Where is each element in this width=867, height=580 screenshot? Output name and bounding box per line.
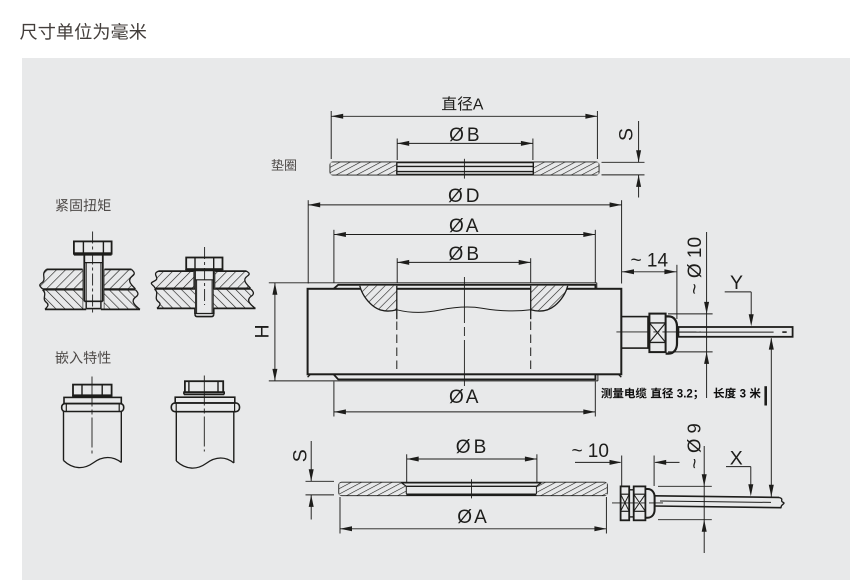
dim ~10 extension lines: [622, 456, 654, 487]
bolt2 upper plate (hatched): [151, 271, 250, 288]
svg-text:A: A: [473, 97, 484, 114]
dim ØB(top) extension lines: [397, 139, 533, 161]
dim label S top (rotated): [616, 128, 638, 141]
dim S(top) extension lines: [602, 162, 645, 175]
dim label 直径A: [442, 96, 484, 113]
bolt2 hex head: [186, 258, 222, 271]
cable (upper): [678, 327, 792, 337]
dim ØA(bottom washer) extension lines: [340, 497, 606, 534]
bolt1 hole clearance lines: [83, 269, 105, 309]
leader Y: [725, 272, 754, 326]
bottom washer outline: [339, 483, 607, 496]
bolt1 protruding tip: [86, 301, 101, 308]
body bottom corner chamfers: [308, 374, 622, 377]
cable length dimension vertical: [766, 338, 774, 497]
bolt1 upper plate (hatched): [40, 269, 136, 289]
dim ØB(bottom) line with arrows: [407, 457, 537, 462]
dim label ØB mid: [448, 244, 478, 265]
dim H bottom extension / bottom silhouette line: [269, 374, 598, 381]
left diaphragm pocket (hatched): [360, 286, 397, 319]
bottom gland washer section: [621, 486, 630, 520]
cyl1 cylinder with break bottom: [64, 412, 122, 468]
dim label ~10: [571, 441, 609, 462]
dim label ØA bottom washer: [457, 507, 487, 528]
dim ØA(mid) line with arrows: [334, 232, 595, 237]
dim ~Ø10 vertical line with arrows: [704, 232, 709, 398]
dim ~Ø9 vertical line with arrows: [702, 446, 707, 553]
bolt2 lower plate (hatched, tapped): [155, 289, 256, 308]
svg-text:3: 3: [740, 388, 746, 400]
bolt2 hole clearance lines: [193, 271, 215, 288]
cable (lower) with break end: [655, 496, 785, 508]
dim ØA(bottom washer) line with arrows: [340, 526, 606, 531]
cyl2 cylinder with break bottom: [176, 412, 234, 468]
dim H vertical line with arrows: [272, 283, 277, 381]
bottom washer centre tick: [471, 479, 473, 498]
dim label ~14: [631, 251, 669, 272]
bolt1 lower plate (hatched): [43, 290, 141, 310]
cyl1 bolt head: [73, 385, 112, 397]
svg-text:Ø B: Ø B: [448, 244, 478, 265]
bottom washer hatch right: [536, 483, 607, 496]
cable axis centerline: [616, 331, 701, 333]
dim ØD extension lines: [308, 200, 621, 283]
svg-text:Ø B: Ø B: [449, 125, 479, 146]
svg-text:~ 14: ~ 14: [631, 251, 669, 272]
dim S(top) vertical line and arrows: [636, 121, 641, 198]
dim ØB(top) line with arrows: [397, 141, 533, 146]
washer outline (垫圈 top view section): [330, 162, 598, 174]
dim S(bottom) extension lines: [306, 481, 335, 495]
bottom gland connector ring: [629, 486, 634, 520]
bottom gland nut body: [634, 486, 646, 520]
svg-text:Ø D: Ø D: [448, 186, 479, 207]
dim 直径A extension lines: [331, 111, 597, 159]
washer center web lines: [397, 166, 534, 171]
dim ØA (body bottom) line with arrows: [334, 409, 595, 414]
dim ~14 line with arrows: [622, 269, 676, 274]
washer hatch left: [330, 162, 396, 174]
dim ØA (body bottom) extension lines: [334, 382, 595, 417]
dim label ØA bottom of body: [449, 387, 479, 408]
svg-text:Ø A: Ø A: [449, 387, 479, 408]
cyl2 bolt head: [184, 381, 224, 394]
gland dome cap: [666, 316, 677, 353]
note 长度 3 米: [714, 388, 761, 401]
washer centre tick: [463, 159, 465, 179]
title text 尺寸单位为毫米: [20, 23, 146, 40]
dim label ØD: [448, 186, 479, 207]
dim label ~Ø9 (rotated): [684, 423, 705, 469]
hidden bore line left (dashed): [396, 322, 398, 373]
dim label ØB bottom: [456, 437, 486, 458]
right diaphragm pocket (hatched): [531, 286, 568, 319]
dim label ØA mid: [449, 216, 479, 237]
dim ØD line with arrows: [308, 202, 621, 207]
dim 直径A line with arrows: [331, 114, 597, 119]
svg-text:S: S: [289, 449, 311, 462]
label 紧固扭矩: [56, 199, 111, 212]
svg-text:H: H: [252, 324, 274, 338]
bolt2 centerline: [204, 247, 206, 305]
dim label ØB top: [449, 125, 479, 146]
svg-text:Y: Y: [730, 272, 743, 294]
bolt1 hex head: [74, 241, 112, 254]
load cell body outline: [308, 289, 622, 375]
hidden bore line right (dashed): [530, 322, 532, 373]
svg-text:Ø A: Ø A: [449, 216, 479, 237]
note 测量电缆 直径 3.2；: [601, 388, 697, 401]
svg-text:~ Ø 10: ~ Ø 10: [685, 237, 706, 295]
svg-text:~ Ø 9: ~ Ø 9: [684, 423, 705, 469]
bolt1 shank: [84, 255, 103, 302]
break wavy line across bore: [397, 307, 531, 312]
label 垫圈: [272, 159, 296, 171]
dim S(bottom) vertical line and arrows: [309, 441, 314, 520]
bolt1 centerline: [92, 232, 94, 315]
body bottom boss (ØA lip): [334, 374, 596, 379]
svg-text:Ø B: Ø B: [456, 437, 486, 458]
svg-text:~ 10: ~ 10: [571, 441, 609, 462]
bottom washer web lines: [406, 486, 536, 494]
dim label S bottom (rotated): [289, 449, 311, 462]
body top boss (ØA lip): [334, 285, 596, 289]
svg-text:3.2: 3.2: [677, 388, 693, 400]
leader X: [726, 448, 753, 497]
dim ~10 line with arrows: [575, 460, 680, 465]
dim label ~Ø10 (rotated): [685, 237, 706, 295]
dim ØA(mid) extension lines: [334, 230, 595, 283]
cyl1 centerline: [91, 377, 93, 454]
dim ØB(mid) extension lines: [397, 258, 531, 283]
label 嵌入特性: [56, 351, 111, 364]
bottom washer hatch left: [339, 483, 406, 496]
washer hatch right: [533, 162, 598, 174]
bottom gland centerline: [612, 502, 663, 504]
dim ØB(bottom) extension lines: [407, 454, 537, 482]
dim label H (rotated): [252, 324, 274, 338]
svg-text:Ø A: Ø A: [457, 507, 487, 528]
bolt2 shank: [195, 270, 214, 316]
dim ~Ø10 extension lines: [668, 314, 713, 352]
gland neck: [621, 317, 648, 349]
dim ~Ø9 extension lines: [658, 486, 712, 519]
body vertical centerline: [463, 277, 465, 386]
dim ØB(mid) line with arrows: [397, 260, 531, 265]
dim ~14 extension line: [676, 265, 678, 319]
svg-text:S: S: [616, 128, 638, 141]
cyl2 top washer plate: [175, 397, 235, 403]
gland nut cross X: [649, 323, 665, 343]
dim H extension / top silhouette line: [269, 283, 597, 289]
gland nut body: [649, 314, 665, 353]
cyl1 sensor collar: [62, 404, 124, 412]
cyl2 sensor collar: [171, 403, 239, 412]
cyl1 top washer plate: [64, 397, 121, 403]
cyl2 centerline: [203, 376, 205, 452]
bottom gland dome cap: [645, 489, 654, 518]
